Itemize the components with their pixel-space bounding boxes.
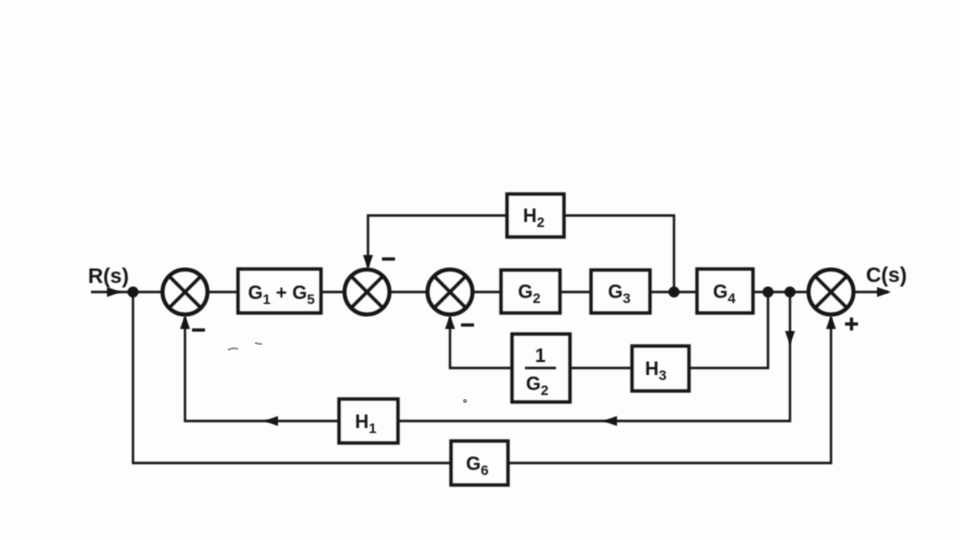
svg-text:1: 1 xyxy=(535,346,546,367)
svg-text:H3: H3 xyxy=(645,359,667,383)
svg-text:R(s): R(s) xyxy=(88,265,129,288)
svg-text:G1 + G5: G1 + G5 xyxy=(248,283,315,307)
svg-text:G2: G2 xyxy=(518,282,541,306)
svg-text:H1: H1 xyxy=(355,412,377,436)
svg-text:G2: G2 xyxy=(526,374,549,398)
svg-text:G3: G3 xyxy=(608,282,631,306)
svg-text:H2: H2 xyxy=(523,206,545,230)
svg-text:G4: G4 xyxy=(713,282,736,306)
svg-text:C(s): C(s) xyxy=(866,264,907,287)
svg-text:G6: G6 xyxy=(466,454,489,478)
